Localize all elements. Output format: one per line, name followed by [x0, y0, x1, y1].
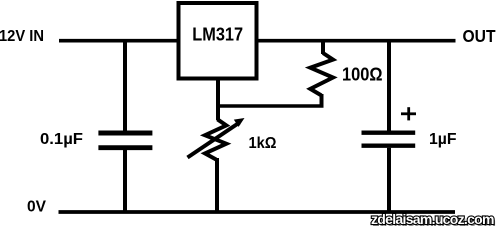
potentiometer R2 wiper arrow shaft [188, 123, 240, 158]
potentiometer R2 1k zigzag [205, 119, 226, 159]
svg-text:100Ω: 100Ω [342, 64, 383, 84]
svg-text:0V: 0V [27, 199, 46, 216]
potentiometer R2 wiper arrowhead [234, 118, 245, 127]
wire input cap top: junction to C1 [123, 40, 127, 131]
wire R1 top stub [321, 40, 325, 54]
wire R2 bottom: pot to ground rail [215, 158, 219, 212]
regulator U1 LM317 body [179, 3, 257, 79]
capacitor C2 1uF bottom plate [362, 143, 416, 147]
svg-text:zdelaisam.ucoz.com: zdelaisam.ucoz.com [371, 211, 494, 227]
wire R1 bottom stub [320, 94, 324, 107]
svg-text:12V IN: 12V IN [0, 28, 44, 45]
wire output cap bottom: C2 to ground rail [387, 148, 391, 212]
wire input cap bottom: C1 to ground rail [123, 150, 127, 212]
svg-text:1kΩ: 1kΩ [249, 135, 277, 152]
resistor R1 100ohm zigzag [310, 53, 333, 95]
wire ADJ pin: regulator bottom pin [216, 78, 220, 120]
svg-text:0.1µF: 0.1µF [40, 131, 83, 148]
capacitor C1 0.1uF top plate [98, 131, 152, 136]
wire IN net: 12V IN to regulator [59, 39, 179, 43]
wire output cap top: junction to C2 [387, 40, 391, 133]
wire ground rail 0V [59, 210, 456, 214]
wire OUT net: regulator to OUT terminal [257, 39, 456, 43]
svg-text:LM317: LM317 [192, 25, 243, 45]
svg-text:OUT: OUT [463, 26, 496, 46]
capacitor C2 1uF top plate [362, 130, 416, 134]
capacitor C1 0.1uF bottom plate [98, 145, 152, 150]
svg-text:1µF: 1µF [429, 131, 457, 148]
wire ADJ net: pin to R1 bottom [216, 104, 323, 108]
capacitor C2 1uF plus sign [401, 107, 416, 120]
